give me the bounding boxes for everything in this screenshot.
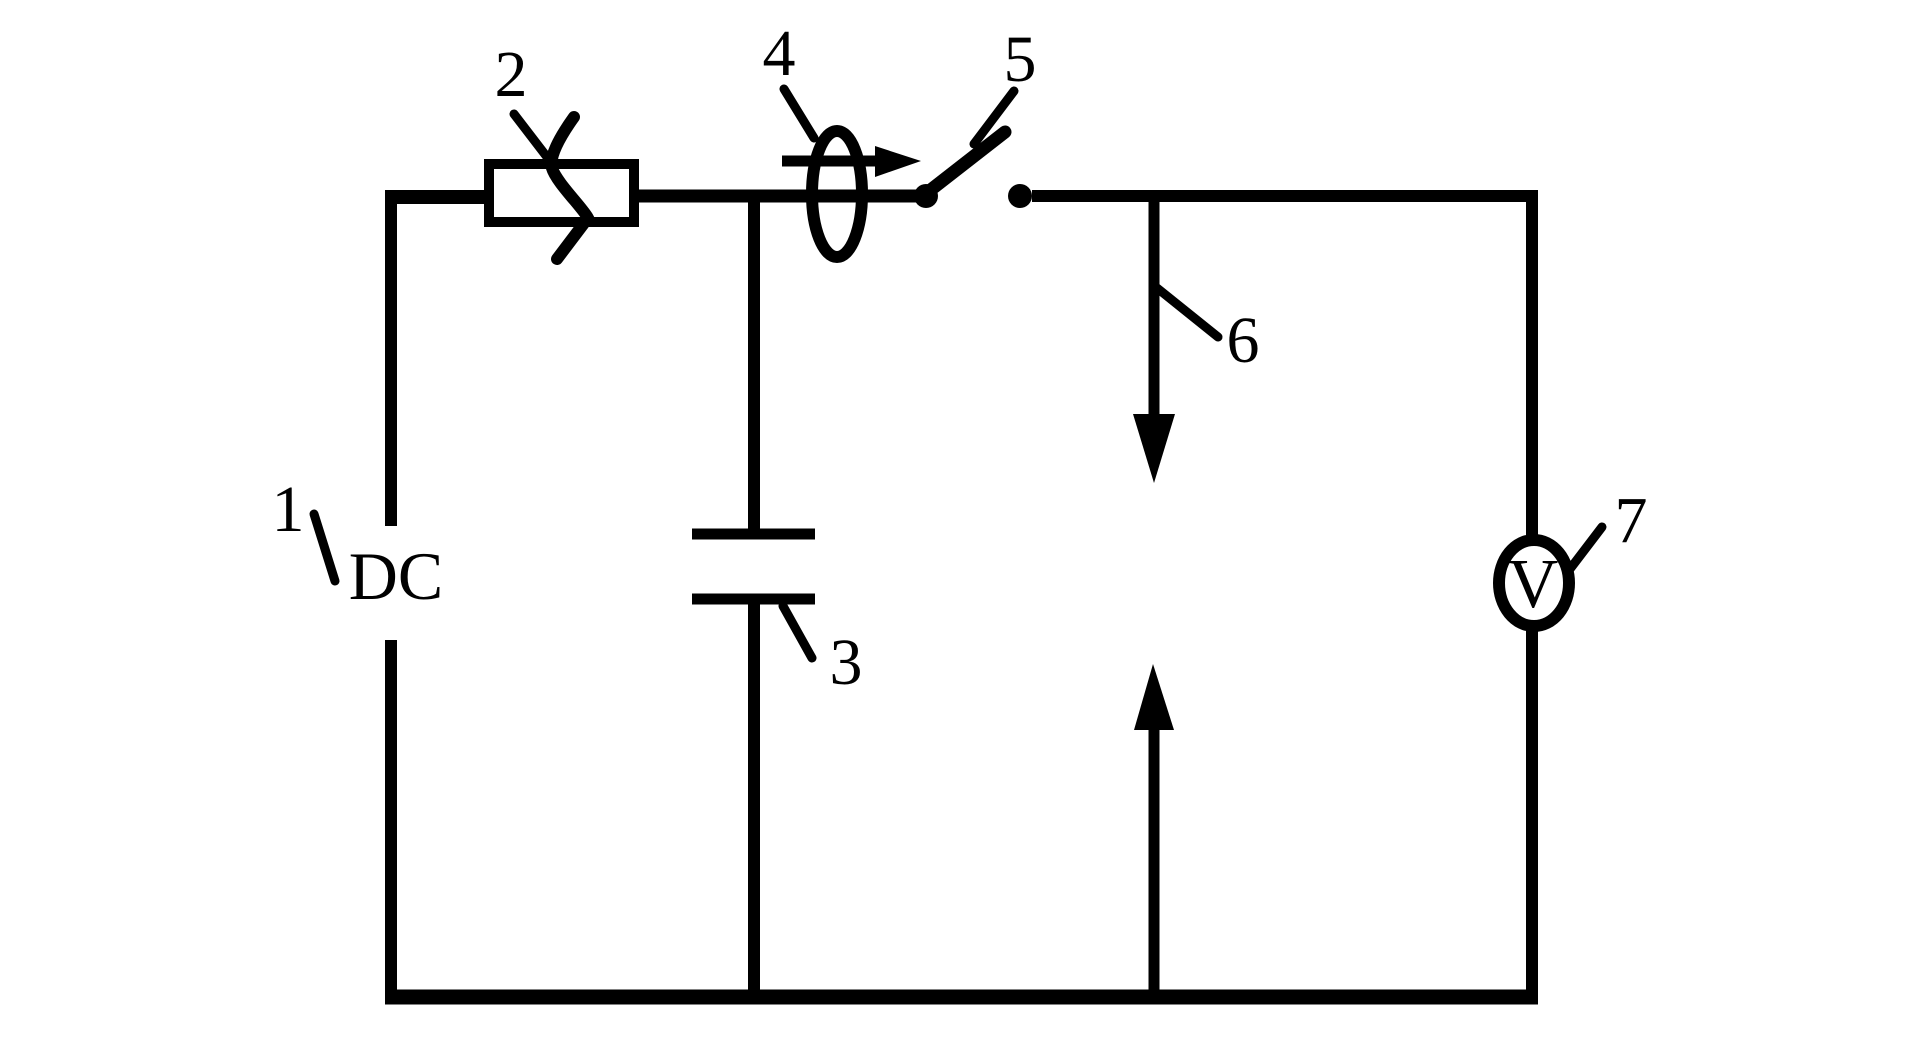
switch 5 left contact dot bbox=[914, 184, 938, 208]
svg-text:6: 6 bbox=[1227, 304, 1260, 377]
leader line from label 2 to resistor bbox=[514, 114, 547, 157]
electrode 6 upper: downward arrow shaft bbox=[1149, 191, 1160, 419]
electrode 6 upper: downward arrowhead bbox=[1133, 414, 1175, 483]
switch 5 lever bbox=[928, 132, 1005, 192]
leader line from label 6 to electrode bbox=[1157, 288, 1218, 337]
switch 5 right contact dot bbox=[1008, 184, 1032, 208]
leader line from label 1 to DC source bbox=[314, 514, 335, 581]
wire: right vertical upper (to voltmeter) bbox=[1526, 190, 1538, 537]
leader line from label 4 to sensor bbox=[784, 89, 814, 138]
wire: left vertical upper (DC source top lead) bbox=[385, 191, 397, 526]
wire: capacitor branch lower bbox=[748, 599, 760, 1003]
current sensor 4 arrowhead bbox=[875, 146, 921, 177]
resistor 2 adjustment arrow (curved stroke through body with tail) bbox=[551, 117, 588, 259]
svg-text:7: 7 bbox=[1615, 484, 1648, 557]
leader line from label 3 to capacitor bbox=[783, 606, 812, 658]
electrode 6 lower: upward arrowhead bbox=[1134, 664, 1174, 730]
leader line from label 5 to switch bbox=[974, 91, 1014, 144]
capacitor 3 top plate bbox=[692, 529, 815, 540]
voltmeter 7 body circle bbox=[1499, 540, 1569, 626]
leader line from label 7 to voltmeter bbox=[1570, 527, 1602, 569]
svg-text:3: 3 bbox=[830, 626, 863, 699]
wire: left vertical lower (DC source bottom lead) bbox=[385, 640, 397, 1003]
wire: top-left horizontal from DC source to resistor 2 bbox=[385, 190, 489, 204]
svg-text:5: 5 bbox=[1004, 23, 1037, 96]
current sensor 4 coil (ellipse around wire) bbox=[812, 131, 862, 257]
svg-text:DC: DC bbox=[349, 538, 443, 614]
capacitor 3 bottom plate bbox=[692, 594, 815, 605]
electrode 6 lower: upward arrow shaft bbox=[1149, 730, 1160, 1003]
wire: capacitor branch upper bbox=[748, 191, 760, 534]
wire: bottom horizontal bbox=[385, 990, 1538, 1005]
svg-text:1: 1 bbox=[272, 473, 305, 546]
wire: top right horizontal from switch to right corner bbox=[1032, 190, 1538, 202]
svg-text:2: 2 bbox=[495, 38, 528, 111]
current sensor 4 arrow shaft bbox=[782, 156, 878, 167]
wire: top middle horizontal from resistor to switch 5 bbox=[634, 190, 930, 203]
svg-text:V: V bbox=[1508, 546, 1559, 623]
svg-text:4: 4 bbox=[763, 17, 796, 90]
wire: right vertical lower (from voltmeter) bbox=[1526, 630, 1538, 1003]
resistor 2 (rectangle body) bbox=[489, 164, 634, 222]
